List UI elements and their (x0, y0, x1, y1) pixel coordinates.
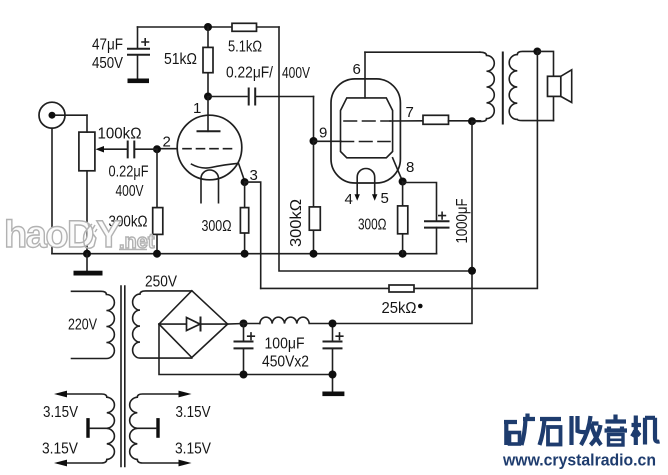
svg-text:8: 8 (406, 159, 414, 176)
transformer T2 primary (472, 52, 494, 121)
resistor 300Ω cathode V1 (202, 182, 249, 254)
svg-text:1000μF: 1000μF (454, 198, 471, 243)
svg-text:250V: 250V (145, 274, 177, 291)
transformer T1 secondary 250V (133, 274, 192, 359)
svg-text:5: 5 (381, 190, 389, 207)
capacitor 1000μF (403, 183, 471, 254)
transformer T1 heater winding right (130, 391, 212, 467)
transformer T1 heater winding left (42, 391, 114, 467)
ground (47μF) (128, 79, 150, 84)
svg-text:220V: 220V (68, 317, 97, 334)
wire rectifier + to choke (228, 323, 260, 326)
wire pin6 to output transformer (365, 51, 480, 53)
node pin8 junction (399, 178, 407, 186)
svg-text:100μF: 100μF (265, 336, 305, 353)
capacitor 100μF #2 (262, 320, 343, 392)
svg-text:3.15V: 3.15V (43, 404, 78, 421)
ground (bus) (74, 254, 103, 276)
speaker (548, 70, 572, 103)
wire secondary to speaker (537, 51, 553, 120)
svg-text:9: 9 (319, 125, 327, 142)
pentode V2 (314, 52, 424, 208)
resistor 300Ω cathode V2 (358, 182, 408, 254)
svg-text:47μF: 47μF (92, 37, 123, 54)
inductor filter choke (260, 317, 333, 323)
svg-text:300kΩ: 300kΩ (288, 199, 305, 247)
svg-text:4: 4 (345, 191, 353, 208)
svg-text:300Ω: 300Ω (358, 217, 387, 234)
svg-text:6: 6 (353, 61, 361, 78)
svg-text:haoD: haoD (4, 214, 93, 256)
svg-text:25kΩ: 25kΩ (382, 300, 417, 317)
svg-text:3.15V: 3.15V (176, 404, 211, 421)
wire rectifier negative (159, 324, 333, 374)
node top rail junction (204, 23, 212, 31)
capacitor 0.22μF/400V coupling (208, 65, 314, 105)
svg-text:1: 1 (193, 100, 201, 117)
watermark haoDIY.net (4, 214, 155, 256)
wire ground bus (52, 253, 437, 255)
capacitor 47μF 450V (92, 27, 149, 79)
svg-text:100kΩ: 100kΩ (98, 126, 142, 143)
svg-text:300Ω: 300Ω (202, 218, 232, 235)
node B+ top junction (468, 117, 476, 125)
svg-text:Y: Y (96, 214, 121, 256)
svg-text:0.22μF/: 0.22μF/ (226, 65, 273, 82)
resistor 5.1kΩ (228, 23, 262, 55)
wire B+ vertical (333, 121, 472, 323)
svg-text:450Vx2: 450Vx2 (262, 354, 309, 371)
node pin3 junction (241, 178, 249, 186)
svg-text:450V: 450V (92, 55, 123, 72)
node bus/300Ω V1 junction (241, 250, 249, 258)
resistor 300kΩ grid leak V2 (288, 141, 320, 254)
watermark 矿石收音机 logo (504, 414, 660, 446)
transformer T1 primary 220V (68, 291, 114, 358)
resistor 51kΩ (164, 27, 213, 97)
capacitor 0.22μF 400V input (103, 142, 157, 201)
svg-text:7: 7 (406, 104, 414, 121)
node bus/300Ω V2 junction (399, 250, 407, 258)
svg-text:3.15V: 3.15V (42, 441, 78, 458)
input jack (39, 102, 87, 254)
svg-text:3.15V: 3.15V (175, 441, 211, 458)
node bus/300kΩ junction (153, 250, 161, 258)
node bus/pot ground junction (83, 250, 91, 258)
node bus/300kΩ V2 junction (310, 250, 318, 258)
wire coupling to pin9 (313, 97, 315, 142)
wire B+ top rail (138, 26, 280, 28)
svg-text:5.1kΩ: 5.1kΩ (228, 39, 262, 56)
node pin2 junction (153, 145, 161, 153)
capacitor 100μF #1 (235, 324, 255, 379)
ground (PSU) (322, 392, 344, 397)
wire pin3 to feedback line (245, 182, 261, 288)
svg-text:51kΩ: 51kΩ (164, 51, 197, 68)
watermark www.crystalradio.cn (502, 451, 656, 470)
svg-text:400V: 400V (116, 183, 144, 200)
node rectifier + output (240, 320, 248, 328)
node B+ mid junction (468, 267, 476, 275)
wire 5.1kΩ to B+ (vertical x279) (279, 27, 472, 271)
svg-text:www.crystalradio.cn: www.crystalradio.cn (502, 451, 656, 470)
node pin1 junction (204, 93, 212, 101)
bridge rectifier (159, 291, 228, 358)
node pin9 junction (310, 137, 318, 145)
node secondary top junction (533, 48, 541, 56)
svg-text:2: 2 (163, 134, 171, 151)
resistor screen (pin7) (423, 115, 481, 124)
resistor 300kΩ grid leak V1 (109, 149, 163, 254)
transformer T2 secondary (509, 51, 553, 120)
potentiometer 100kΩ (79, 115, 142, 254)
resistor 25kΩ feedback (261, 51, 538, 317)
svg-text:0.22μF: 0.22μF (109, 164, 149, 181)
transformer T1 core (121, 286, 125, 467)
transformer T2 core (502, 53, 504, 124)
svg-text:400V: 400V (282, 65, 310, 82)
triode V1 (161, 97, 258, 203)
